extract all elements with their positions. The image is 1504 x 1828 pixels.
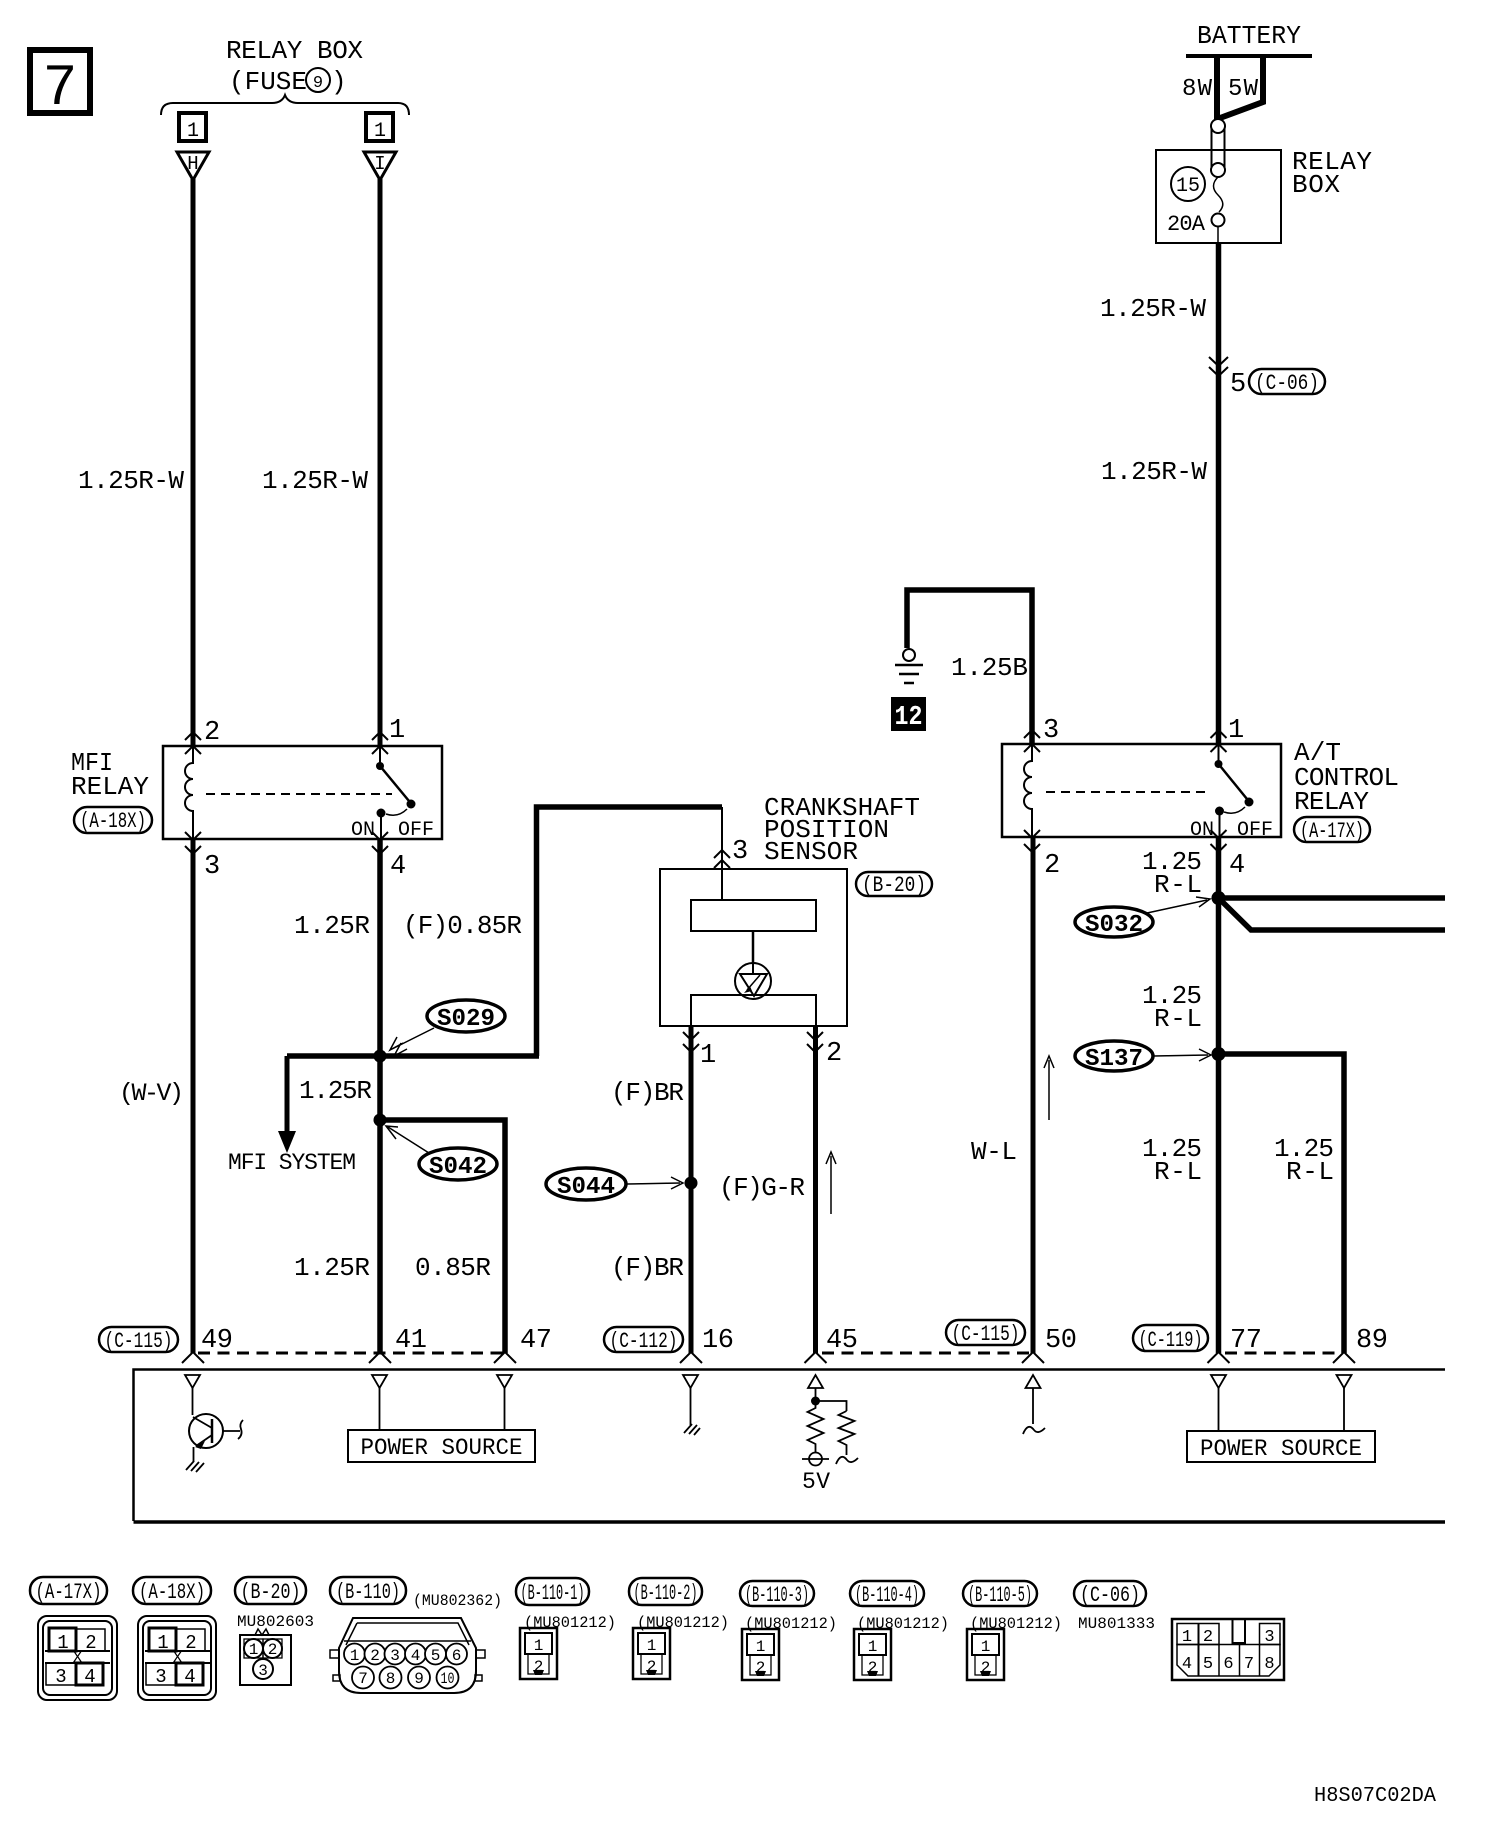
- fuse terminal triangle H: [177, 152, 209, 180]
- sensor pin 3 lead: [721, 807, 723, 900]
- svg-text:4: 4: [84, 1666, 95, 1688]
- MFI relay pin 4 arrows: [372, 832, 388, 854]
- splice label S032: [1075, 897, 1210, 939]
- connector B-110-5 pinout: [967, 1629, 1004, 1680]
- svg-text:0.85R: 0.85R: [415, 1253, 491, 1283]
- svg-text:(B-110-3): (B-110-3): [745, 1583, 809, 1608]
- svg-text:POWER SOURCE: POWER SOURCE: [361, 1435, 523, 1461]
- svg-text:): ): [331, 67, 347, 97]
- wire 8W from battery: [1214, 56, 1220, 120]
- svg-text:2: 2: [1203, 1628, 1213, 1647]
- CRANKSHAFT POSITION SENSOR label: [764, 793, 920, 867]
- sensor pin 2 arrows: [807, 1032, 823, 1052]
- connector ref A-17X capsule (legend): [30, 1577, 107, 1605]
- svg-text:(FUSE: (FUSE: [229, 67, 307, 97]
- ECU pull-up resistors at pin 45: [802, 1388, 858, 1466]
- svg-text:OFF: OFF: [1237, 819, 1273, 842]
- svg-text:1.25R-W: 1.25R-W: [78, 466, 184, 496]
- splice label S137: [1075, 1041, 1211, 1073]
- svg-text:1: 1: [868, 1638, 878, 1656]
- splice S044 junction dot: [685, 1177, 698, 1190]
- ECU connector dashed line C-115 left: [198, 1352, 508, 1355]
- svg-text:(B-110-1): (B-110-1): [521, 1581, 585, 1606]
- ECU transistor ground: [186, 1461, 204, 1472]
- svg-text:7: 7: [1244, 1655, 1254, 1674]
- wire end flare pin 41: [369, 1352, 391, 1363]
- POWER SOURCE box left: [348, 1430, 535, 1462]
- svg-text:1: 1: [981, 1638, 991, 1656]
- A/T relay coil: [1024, 744, 1032, 837]
- A/T relay pin 4 arrows: [1211, 830, 1227, 852]
- svg-text:2: 2: [85, 1632, 96, 1654]
- ECU box outline: [134, 1370, 1446, 1522]
- MFI relay coil: [185, 746, 193, 839]
- svg-text:1: 1: [374, 120, 386, 143]
- connector ref B-110-4 capsule (legend): [850, 1581, 924, 1608]
- splice S032 junction dot: [1212, 891, 1226, 905]
- svg-text:(B-110-4): (B-110-4): [855, 1583, 919, 1608]
- svg-text:3: 3: [1264, 1628, 1274, 1647]
- svg-text:(A-17X): (A-17X): [36, 1580, 102, 1605]
- svg-text:50: 50: [1045, 1326, 1077, 1356]
- wire from MFI pin 4 down with splices: [377, 840, 383, 1353]
- MFI relay pin 2 arrows: [185, 732, 201, 754]
- connector B-20 pinout: [240, 1629, 291, 1685]
- svg-text:I: I: [374, 153, 385, 175]
- svg-text:1: 1: [389, 716, 405, 746]
- svg-text:R-L: R-L: [1286, 1157, 1334, 1187]
- connector ref B-110-5 capsule (legend): [963, 1581, 1037, 1608]
- svg-text:2: 2: [1044, 851, 1060, 881]
- fuse output lead: [1217, 227, 1219, 243]
- ground symbol: [895, 649, 923, 683]
- svg-text:1.25R: 1.25R: [294, 911, 370, 941]
- svg-text:1: 1: [647, 1637, 657, 1655]
- wire 1.25R-W from fuse H to MFI relay pin 2: [191, 179, 196, 746]
- wire branch to ECU pin 89: [1219, 1054, 1345, 1353]
- svg-text:S032: S032: [1085, 912, 1143, 939]
- svg-text:BOX: BOX: [1292, 170, 1340, 200]
- wire S029 horizontal run: [287, 1053, 539, 1059]
- svg-text:1.25B: 1.25B: [951, 653, 1028, 683]
- svg-text:1: 1: [350, 1647, 360, 1665]
- fusible link symbol: [1211, 119, 1225, 177]
- svg-text:(C-06): (C-06): [1080, 1583, 1140, 1608]
- connector ref C-112 capsule: [604, 1327, 683, 1354]
- wire 5W from battery: [1220, 56, 1263, 118]
- svg-text:5: 5: [431, 1647, 441, 1665]
- svg-text:2: 2: [826, 1039, 842, 1069]
- svg-text:(C-112): (C-112): [610, 1329, 678, 1354]
- ECU connector dashed line C-119 right: [1225, 1352, 1340, 1355]
- svg-text:49: 49: [201, 1326, 233, 1356]
- connector C-06 pass-through arrows: [1209, 357, 1228, 376]
- value label 1.25 R-L at pin 4: [1142, 847, 1202, 900]
- sensor pickup symbol: [735, 931, 771, 999]
- ECU connector dashed line C-115 mid: [822, 1352, 1029, 1355]
- connector ref C-115 capsule left: [99, 1327, 178, 1354]
- MFI relay switch: [376, 746, 416, 839]
- RELAY BOX label: [1292, 147, 1372, 200]
- svg-text:1: 1: [157, 1632, 168, 1654]
- svg-text:(C-115): (C-115): [952, 1322, 1020, 1347]
- wire branch right lower diagonal: [1219, 898, 1446, 930]
- svg-text:(A-17X): (A-17X): [1300, 819, 1364, 844]
- svg-text:5: 5: [1203, 1655, 1213, 1674]
- svg-text:(F)G-R: (F)G-R: [719, 1173, 805, 1203]
- connector B-110-2 pinout: [633, 1628, 670, 1679]
- svg-text:S029: S029: [437, 1006, 495, 1033]
- fuse terminal triangle I: [364, 152, 396, 180]
- svg-text:1: 1: [57, 1632, 68, 1654]
- direction arrow on pin2 wire: [826, 1152, 836, 1214]
- svg-text:2: 2: [185, 1632, 196, 1654]
- connector A-18X pinout: [138, 1616, 216, 1700]
- wire W-V from MFI pin 3 to ECU pin 49: [191, 840, 196, 1353]
- svg-text:1: 1: [1228, 716, 1244, 746]
- svg-text:12: 12: [895, 703, 923, 733]
- connector ref B-110 capsule (legend): [330, 1577, 406, 1605]
- svg-text:89: 89: [1356, 1326, 1388, 1356]
- svg-text:8W: 8W: [1182, 76, 1213, 103]
- svg-text:1.25R: 1.25R: [294, 1253, 370, 1283]
- value label 1.25 R-L mid: [1142, 981, 1202, 1034]
- svg-text:(A-18X): (A-18X): [80, 809, 146, 834]
- splice S029 junction dot: [374, 1050, 387, 1063]
- wire end flare pin 89: [1333, 1352, 1355, 1363]
- svg-text:H8S07C02DA: H8S07C02DA: [1314, 1785, 1436, 1808]
- wire branch up to crankshaft sensor: [537, 807, 723, 1056]
- A/T relay pin 1 arrows: [1211, 730, 1227, 752]
- svg-text:8: 8: [386, 1670, 396, 1688]
- svg-text:3: 3: [155, 1666, 166, 1688]
- A/T relay pin 2 arrows: [1024, 830, 1040, 852]
- lead pin 77 to power source: [1218, 1388, 1220, 1431]
- wire end flare pin 16: [680, 1352, 702, 1363]
- svg-text:2: 2: [268, 1641, 278, 1659]
- svg-text:RELAY BOX: RELAY BOX: [226, 36, 363, 66]
- svg-text:H: H: [187, 153, 198, 175]
- MFI SYSTEM feed arrow: [278, 1056, 296, 1153]
- wire end flare pin 50: [1022, 1352, 1044, 1363]
- svg-text:S044: S044: [557, 1174, 615, 1201]
- fuse number circle 15: [1171, 167, 1205, 201]
- svg-text:OFF: OFF: [398, 819, 434, 842]
- connector ref C-06 capsule (legend): [1074, 1581, 1146, 1608]
- svg-text:1: 1: [700, 1041, 716, 1071]
- connector ref A-18X capsule: [74, 807, 152, 834]
- svg-text:1.25R-W: 1.25R-W: [262, 466, 368, 496]
- svg-text:3: 3: [204, 852, 220, 882]
- A/T control relay box A-17X: [1002, 744, 1281, 837]
- svg-text:S137: S137: [1085, 1046, 1143, 1073]
- svg-text:10: 10: [441, 1670, 455, 1688]
- wire 1.25R-W from fuse I to MFI relay pin 1: [378, 179, 383, 746]
- A/T CONTROL RELAY label: [1294, 738, 1399, 817]
- wire (F)BR sensor pin 1 to ECU pin 16: [689, 1026, 694, 1353]
- lead pin 89 to power source: [1343, 1388, 1345, 1431]
- svg-text:(MU802362): (MU802362): [413, 1592, 502, 1610]
- svg-text:41: 41: [395, 1326, 427, 1356]
- connector B-110-1 pinout: [520, 1628, 557, 1679]
- wire W-L from A/T pin 2 to ECU pin 50: [1031, 837, 1036, 1353]
- svg-text:(F)BR: (F)BR: [611, 1253, 684, 1283]
- svg-text:8: 8: [1264, 1655, 1274, 1674]
- MFI relay pin 1 arrows: [372, 732, 388, 754]
- splice S137 junction dot: [1212, 1047, 1226, 1061]
- svg-text:BATTERY: BATTERY: [1197, 21, 1301, 51]
- sensor inner element top: [691, 900, 816, 931]
- ground ref 12 black box: [891, 697, 926, 733]
- svg-text:1: 1: [756, 1638, 766, 1656]
- svg-text:MU801333: MU801333: [1078, 1615, 1155, 1633]
- connector B-110-3 pinout: [742, 1629, 779, 1680]
- MFI relay dashed link: [206, 793, 392, 795]
- svg-text:(C-115): (C-115): [105, 1329, 173, 1354]
- battery bus bar: [1186, 54, 1312, 58]
- svg-text:R-L: R-L: [1154, 1157, 1202, 1187]
- wire (F)G-R sensor pin 2 to ECU pin 45: [813, 1026, 818, 1353]
- svg-text:9: 9: [414, 1670, 424, 1688]
- svg-text:SENSOR: SENSOR: [764, 837, 858, 867]
- POWER SOURCE box right: [1187, 1431, 1375, 1462]
- svg-text:2: 2: [370, 1647, 380, 1665]
- splice label S044: [546, 1168, 683, 1201]
- connector C-06 pinout: [1172, 1619, 1284, 1680]
- value label 1.25 R-L lower right: [1274, 1134, 1334, 1187]
- svg-text:77: 77: [1230, 1326, 1262, 1356]
- svg-text:(MU801212): (MU801212): [970, 1615, 1062, 1633]
- svg-text:RELAY: RELAY: [1294, 787, 1369, 817]
- svg-text:1: 1: [187, 120, 199, 143]
- svg-text:7: 7: [43, 57, 78, 122]
- svg-text:20A: 20A: [1167, 212, 1206, 237]
- splice label S042: [386, 1126, 497, 1181]
- svg-text:3: 3: [258, 1662, 268, 1680]
- svg-text:S042: S042: [429, 1154, 487, 1181]
- connector ref C-06 capsule: [1249, 369, 1325, 396]
- svg-text:W-L: W-L: [971, 1137, 1017, 1167]
- connector ref C-115 capsule mid: [946, 1320, 1025, 1347]
- svg-text:(F)0.85R: (F)0.85R: [403, 911, 522, 941]
- wire 1.25R-W relay box to A/T relay pin 1: [1216, 243, 1222, 744]
- connector ref B-20 capsule (legend): [235, 1577, 306, 1605]
- wire branch right upper: [1219, 895, 1446, 901]
- direction arrow on W-L wire: [1044, 1056, 1054, 1120]
- svg-text:4: 4: [1229, 851, 1245, 881]
- wire end flare pin 77: [1208, 1352, 1230, 1363]
- svg-text:7: 7: [358, 1670, 368, 1688]
- fuse bottom circle: [1212, 214, 1225, 227]
- connector ref B-20 capsule: [856, 872, 932, 898]
- connector ref B-110-3 capsule (legend): [740, 1581, 814, 1608]
- svg-text:RELAY: RELAY: [71, 772, 149, 802]
- svg-text:(C-119): (C-119): [1139, 1328, 1203, 1353]
- ECU transistor Q: [189, 1388, 243, 1462]
- fuse H terminal square 1: [179, 113, 206, 143]
- connector ref A-18X capsule (legend): [133, 1577, 211, 1605]
- svg-text:5W: 5W: [1228, 76, 1259, 103]
- svg-text:4: 4: [411, 1647, 421, 1665]
- svg-text:(B-110-5): (B-110-5): [968, 1583, 1032, 1608]
- svg-text:(A-18X): (A-18X): [139, 1580, 205, 1605]
- svg-text:(W-V): (W-V): [119, 1079, 184, 1108]
- sensor pin 3 arrows: [714, 850, 730, 868]
- ECU lead at pin 50: [1023, 1388, 1045, 1434]
- svg-text:16: 16: [702, 1326, 734, 1356]
- A/T relay switch: [1215, 744, 1254, 837]
- connector ref B-110-1 capsule (legend): [516, 1578, 589, 1606]
- ECU input triangle pin 89: [1337, 1375, 1352, 1388]
- ground branch wire 1.25B: [907, 590, 1032, 744]
- svg-text:1: 1: [534, 1637, 544, 1655]
- svg-text:MU802603: MU802603: [237, 1613, 314, 1631]
- svg-text:47: 47: [520, 1326, 552, 1356]
- svg-text:9: 9: [313, 74, 323, 93]
- sensor pin 1 arrows: [683, 1032, 699, 1052]
- svg-text:4: 4: [184, 1666, 195, 1688]
- MFI relay pin 3 arrows: [185, 832, 201, 854]
- brace over fuses: [161, 95, 409, 115]
- svg-text:6: 6: [1223, 1655, 1233, 1674]
- svg-text:4: 4: [1182, 1655, 1192, 1674]
- MFI relay U: A-18X box: [163, 746, 442, 839]
- svg-text:(MU801212): (MU801212): [745, 1615, 837, 1633]
- connector ref B-110-2 capsule (legend): [629, 1578, 702, 1606]
- splice S042 junction dot: [374, 1114, 387, 1127]
- lead pin 47 to power source: [504, 1388, 506, 1430]
- svg-text:(C-06): (C-06): [1255, 371, 1319, 396]
- svg-text:4: 4: [390, 852, 406, 882]
- connector B-110-4 pinout: [854, 1629, 891, 1680]
- ECU input triangle pin 41: [372, 1375, 387, 1388]
- wire 1.25R-L from A/T pin 4 to ECU pin 77: [1216, 837, 1222, 1353]
- svg-text:2: 2: [204, 718, 220, 748]
- svg-text:1.25R: 1.25R: [299, 1076, 372, 1106]
- connector ref A-17X capsule: [1294, 817, 1370, 844]
- wire end flare pin 49: [182, 1352, 204, 1363]
- svg-text:(B-110-2): (B-110-2): [634, 1581, 698, 1606]
- splice label S029: [390, 1000, 505, 1056]
- svg-text:(B-20): (B-20): [862, 873, 926, 898]
- A/T relay dashed link: [1046, 791, 1208, 793]
- svg-text:6: 6: [452, 1647, 462, 1665]
- svg-text:15: 15: [1176, 175, 1200, 198]
- ECU output triangle pin 45: [808, 1375, 823, 1388]
- svg-text:(F)BR: (F)BR: [611, 1078, 684, 1108]
- ECU input triangle pin 49: [185, 1375, 200, 1388]
- svg-text:1: 1: [1182, 1628, 1192, 1647]
- svg-text:3: 3: [390, 1647, 400, 1665]
- crankshaft position sensor box B-20: [660, 869, 847, 1026]
- connector A-17X pinout: [38, 1616, 117, 1700]
- fuse element squiggle: [1214, 177, 1223, 212]
- value label 1.25 R-L lower left: [1142, 1134, 1202, 1187]
- svg-text:ON: ON: [351, 819, 375, 842]
- relay box (fuse 9) label: [226, 36, 363, 97]
- ECU input triangle pin 47: [497, 1375, 512, 1388]
- page number 7 box: [30, 50, 90, 122]
- svg-text:5: 5: [1230, 370, 1246, 400]
- svg-text:(B-20): (B-20): [241, 1580, 301, 1605]
- svg-text:R-L: R-L: [1154, 870, 1202, 900]
- svg-text:(B-110): (B-110): [336, 1580, 400, 1605]
- ECU output triangle pin 50: [1026, 1375, 1041, 1388]
- relay box (top right) outline: [1156, 150, 1281, 243]
- ECU input triangle pin 77: [1211, 1375, 1226, 1388]
- svg-text:1: 1: [249, 1641, 259, 1659]
- svg-text:R-L: R-L: [1154, 1004, 1202, 1034]
- svg-text:(MU801212): (MU801212): [524, 1614, 616, 1632]
- connector B-110 pinout: [330, 1618, 485, 1693]
- svg-text:1.25R-W: 1.25R-W: [1100, 294, 1206, 324]
- lead pin 41 to power source: [379, 1388, 381, 1430]
- A/T relay pin 3 arrows: [1024, 730, 1040, 752]
- fuse I terminal square 1: [366, 113, 393, 143]
- svg-text:3: 3: [732, 837, 748, 867]
- sensor inner element bottom: [691, 995, 816, 1026]
- svg-text:POWER SOURCE: POWER SOURCE: [1200, 1436, 1362, 1462]
- svg-text:45: 45: [826, 1326, 858, 1356]
- connector ref C-119 capsule: [1133, 1325, 1208, 1353]
- wire S042 branch to ECU pin 47: [380, 1120, 505, 1353]
- ECU input triangle pin 16: [683, 1375, 698, 1388]
- svg-text:3: 3: [55, 1666, 66, 1688]
- wire end flare pin 45: [805, 1352, 827, 1363]
- svg-text:(MU801212): (MU801212): [637, 1614, 729, 1632]
- svg-text:5V: 5V: [802, 1469, 830, 1495]
- svg-text:(MU801212): (MU801212): [857, 1615, 949, 1633]
- ECU ground at pin 16: [684, 1388, 700, 1435]
- svg-text:MFI SYSTEM: MFI SYSTEM: [228, 1150, 356, 1176]
- wire end flare pin 47: [494, 1352, 516, 1363]
- svg-text:3: 3: [1043, 716, 1059, 746]
- svg-text:1.25R-W: 1.25R-W: [1101, 457, 1207, 487]
